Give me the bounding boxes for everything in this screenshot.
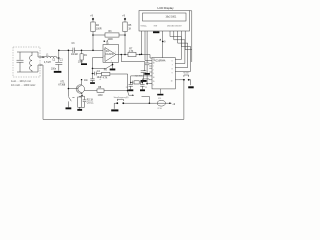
svg-text:5: 5 <box>153 85 154 87</box>
svg-text:PIC16F84A: PIC16F84A <box>154 59 166 62</box>
svg-text:C4: C4 <box>97 71 101 73</box>
resistor R8 <box>85 90 98 92</box>
resistor R3 <box>105 33 119 37</box>
svg-text:VSS(1)+: VSS(1)+ <box>141 26 147 28</box>
svg-text:"MODE": "MODE" <box>183 72 190 74</box>
svg-text:3: 3 <box>153 73 154 75</box>
svg-text:C3: C3 <box>72 43 76 45</box>
ground <box>141 80 147 82</box>
wire <box>92 32 94 51</box>
svg-text:10: 10 <box>171 81 173 83</box>
svg-text:8: 8 <box>172 68 173 70</box>
capacitor Cx <box>17 52 24 72</box>
node L1 out <box>58 57 60 59</box>
svg-text:100n: 100n <box>51 68 57 70</box>
svg-text:+9: +9 <box>172 104 175 106</box>
node <box>142 82 143 83</box>
svg-text:DB4 DB5 DB6 DB7: DB4 DB5 DB6 DB7 <box>167 26 182 28</box>
resistor R7 <box>128 52 136 56</box>
wire <box>17 52 35 72</box>
wire <box>93 62 113 68</box>
capacitor C3 <box>73 48 75 53</box>
svg-text:15: 15 <box>153 81 155 83</box>
svg-text:4: 4 <box>111 61 112 63</box>
contrast cap <box>145 31 149 73</box>
power +9 (R4) <box>92 18 94 21</box>
capacitor C7 <box>141 62 147 80</box>
wire right rail from LCD <box>190 11 192 62</box>
svg-text:16x2 1601: 16x2 1601 <box>166 16 177 18</box>
capacitor C6 <box>83 100 87 102</box>
supply wire bottom <box>149 102 151 104</box>
node <box>124 34 126 36</box>
svg-text:R3: R3 <box>109 31 113 33</box>
svg-text:4.7K: 4.7K <box>103 77 108 79</box>
svg-text:9: 9 <box>172 72 173 74</box>
svg-text:R1: R1 <box>84 55 88 57</box>
resistor R4 <box>91 22 95 32</box>
PIC16F84A <box>152 58 175 89</box>
resistor R5 <box>123 22 127 32</box>
svg-text:C2: C2 <box>52 60 56 62</box>
ground <box>112 65 114 69</box>
svg-text:10uF: 10uF <box>97 77 103 79</box>
svg-text:2: 2 <box>153 69 154 71</box>
wire <box>110 74 128 91</box>
svg-text:CA3130: CA3130 <box>105 53 114 56</box>
svg-text:R/W: R/W <box>154 26 158 28</box>
node A <box>42 56 44 58</box>
node <box>92 50 94 52</box>
switch SA1 <box>68 50 74 107</box>
svg-text:LCD Display: LCD Display <box>158 6 175 10</box>
LCD display <box>139 11 190 32</box>
svg-text:100K: 100K <box>78 61 84 63</box>
svg-text:SetupFrequency(R): SetupFrequency(R) <box>114 96 129 99</box>
ground <box>90 82 95 84</box>
svg-text:C6 0,1: C6 0,1 <box>87 103 94 105</box>
ground <box>140 89 145 91</box>
ground <box>54 71 62 73</box>
wire top bus <box>59 49 103 51</box>
svg-text:R6: R6 <box>104 69 108 71</box>
crystal ZQ1 <box>131 81 143 85</box>
wire <box>121 55 145 62</box>
node <box>58 50 60 52</box>
svg-text:8: 8 <box>108 43 109 45</box>
svg-text:4.7K: 4.7K <box>129 51 134 53</box>
svg-text:22: 22 <box>145 87 147 89</box>
data bus <box>170 31 181 60</box>
bottom pin + ground <box>160 89 162 94</box>
power +9 (R5) <box>124 18 126 21</box>
svg-text:1: 1 <box>153 66 154 68</box>
svg-text:+9: +9 <box>122 15 125 17</box>
capacitor C5 <box>90 79 94 82</box>
wire <box>93 34 125 36</box>
node <box>127 90 129 92</box>
capacitor C4 <box>93 72 102 76</box>
svg-text:R2 1K: R2 1K <box>87 99 94 101</box>
resistor R1 <box>81 50 83 54</box>
resistor R6 <box>102 72 110 75</box>
ground <box>66 107 72 109</box>
wire input 2 <box>93 58 104 79</box>
MODE button <box>179 75 189 80</box>
setup button <box>114 99 149 103</box>
ground rail wire <box>43 118 184 120</box>
svg-text:4,7mH: 4,7mH <box>44 62 51 64</box>
ground <box>81 63 87 65</box>
svg-text:IC1: IC1 <box>106 51 110 53</box>
svg-text:VD1: VD1 <box>158 98 161 100</box>
svg-text:18: 18 <box>153 62 155 64</box>
wire <box>124 32 126 55</box>
svg-text:10n: 10n <box>84 80 89 82</box>
svg-text:7: 7 <box>172 64 173 66</box>
wire to PIC <box>140 55 152 59</box>
svg-text:10 mHz ... 1000 mHz: 10 mHz ... 1000 mHz <box>11 83 36 87</box>
wire <box>57 50 59 58</box>
node <box>112 64 114 66</box>
arrow out <box>128 91 133 96</box>
wire <box>56 57 59 59</box>
capacitor C2 <box>55 58 62 71</box>
op-amp IC1 <box>103 45 119 63</box>
svg-text:+9: +9 <box>90 15 93 17</box>
svg-text:ZQ1 4MHz: ZQ1 4MHz <box>135 76 143 78</box>
svg-text:2: 2 <box>104 56 105 58</box>
svg-text:16: 16 <box>153 77 155 79</box>
PIC right pins <box>175 79 179 81</box>
ground <box>128 89 133 91</box>
R/W ground <box>155 30 158 32</box>
svg-text:1CM: 1CM <box>98 95 103 97</box>
node <box>92 34 94 36</box>
svg-text:6: 6 <box>172 60 173 62</box>
node <box>141 54 143 56</box>
resistor R2 <box>78 97 82 107</box>
ground <box>77 109 82 111</box>
left pins <box>149 64 152 84</box>
svg-text:1uH ... 100,2 mH: 1uH ... 100,2 mH <box>11 79 31 83</box>
node <box>92 73 94 75</box>
inductor L1 <box>44 56 57 58</box>
svg-text:+9: +9 <box>163 41 166 43</box>
node <box>124 54 126 56</box>
svg-text:3: 3 <box>104 49 105 51</box>
svg-text:22: 22 <box>126 87 128 89</box>
svg-text:R5: R5 <box>128 25 132 27</box>
node <box>130 82 131 83</box>
node <box>139 54 141 56</box>
svg-text:10mkF: 10mkF <box>71 54 79 56</box>
wire <box>41 57 44 119</box>
inductor Lx <box>31 52 33 72</box>
terminal <box>40 56 42 58</box>
svg-text:R4: R4 <box>96 25 100 27</box>
wire <box>131 76 152 83</box>
LCD pins left <box>142 31 153 61</box>
probe dashed box <box>13 47 40 77</box>
capacitor C8 <box>129 82 133 89</box>
svg-text:100K: 100K <box>108 39 114 41</box>
labels <box>11 6 190 110</box>
regulator VD1 <box>157 100 165 106</box>
svg-text:100R: 100R <box>96 29 102 31</box>
svg-text:17: 17 <box>153 58 155 60</box>
capacitor C9 <box>140 82 144 89</box>
svg-text:VT1: VT1 <box>60 82 65 84</box>
svg-text:C1: C1 <box>60 60 64 62</box>
output wire <box>116 54 140 56</box>
node <box>81 95 83 97</box>
transistor VT1 <box>76 85 84 93</box>
svg-text:1K: 1K <box>128 29 131 31</box>
node <box>121 54 123 56</box>
svg-text:KT368: KT368 <box>58 85 65 87</box>
+9 pin <box>162 31 164 58</box>
svg-text:7: 7 <box>115 52 116 54</box>
node <box>92 68 94 70</box>
terminal <box>40 64 42 66</box>
node <box>81 50 83 52</box>
wire <box>35 52 40 72</box>
svg-text:IC 5B: IC 5B <box>157 108 162 110</box>
emitter network wires <box>80 96 85 109</box>
